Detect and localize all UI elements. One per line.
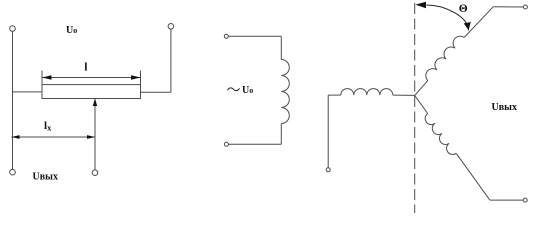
svg-text:Uвых: Uвых [33, 171, 58, 182]
svg-text:Uвых: Uвых [492, 102, 517, 113]
svg-text:lx: lx [44, 120, 52, 133]
svg-text:Uo: Uo [66, 25, 77, 36]
svg-text:Uo: Uo [242, 85, 253, 96]
svg-text:l: l [84, 62, 87, 74]
svg-text:Θ: Θ [459, 3, 468, 15]
